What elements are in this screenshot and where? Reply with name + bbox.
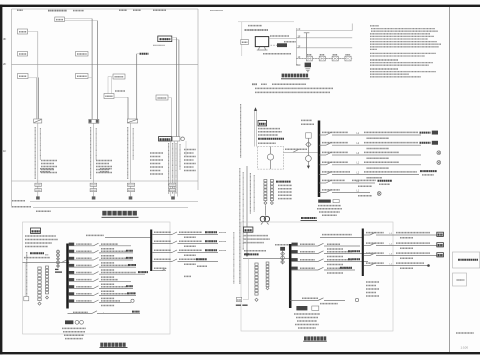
AW2 circuit W3 conductor note — [327, 264, 343, 266]
signal wire — [269, 38, 297, 40]
general notes text block — [370, 25, 379, 27]
riser W4 line a — [176, 38, 178, 137]
fire control room label — [263, 53, 291, 55]
title block divider line — [449, 7, 451, 352]
AW1 circuit W4 breaker box — [69, 264, 75, 267]
surge fuse diamond — [306, 142, 311, 147]
AW1 circuit W8 breaker — [94, 293, 99, 296]
AL1 circuit WL2 wire — [152, 243, 172, 245]
AW2 circuit W1 breaker label — [300, 243, 315, 245]
AW1 circuit W7 wire — [69, 287, 94, 289]
circuit WL2 load tag — [420, 142, 431, 144]
cable spec text W1 — [41, 160, 57, 162]
earth bar chain AW2 — [266, 262, 269, 264]
distribution box AL2-1 — [76, 74, 89, 79]
AL1 circuit WL2 breaker — [172, 241, 177, 244]
small legend mark — [457, 279, 465, 281]
surge protective device SPD — [318, 200, 331, 203]
riser W4 cable tags rotated — [168, 143, 170, 194]
AW1 spare circuit load tag — [132, 311, 140, 313]
AW1 circuit W6 breaker label — [76, 279, 91, 281]
bonding riser line — [295, 28, 297, 65]
floor line 2F — [296, 47, 352, 49]
AW1 circuit W7 breaker label — [76, 286, 91, 288]
UPS box — [241, 40, 249, 45]
AL1 circuit WL1 breaker — [172, 232, 177, 235]
wire — [114, 96, 128, 98]
AW1 SPD — [65, 320, 73, 324]
branch circuit WL2 breaker label — [322, 142, 348, 144]
switch box on riser W2 — [89, 119, 99, 123]
AW1 circuit W3 cable tag — [101, 257, 126, 259]
incoming wire — [23, 262, 70, 264]
AL2 circuit WL1 load box — [437, 232, 444, 236]
distribution box AP3 — [18, 29, 28, 34]
riser W3 cable tag rotated b — [132, 128, 134, 160]
elevator feeder box AW — [104, 94, 114, 99]
SPD note text — [318, 205, 341, 207]
panel label AW2 — [244, 227, 253, 232]
AW2 circuit W2 cable tag — [327, 251, 352, 253]
AL2 circuit WL2 load box — [437, 243, 444, 247]
AW1 circuit W9 breaker label — [76, 300, 91, 302]
AW1 circuit W1 conductor note — [101, 248, 115, 250]
stub wire — [185, 141, 187, 157]
branch circuit WL6 breaker label — [322, 179, 345, 181]
AW1 circuit W4 load tag — [128, 264, 136, 266]
equipotential diagram title underline — [281, 78, 310, 80]
circuit WL3 conductor note — [367, 157, 390, 159]
AL2 circuit WL1 conductor note — [400, 237, 413, 239]
wire tag RVS — [270, 35, 289, 37]
circuit WL4 lamp symbol — [437, 161, 441, 165]
circuit WL3 breaker — [326, 152, 332, 155]
panel name dark text — [258, 138, 284, 140]
AW1 circuit W6 breaker — [94, 279, 99, 282]
AW1 title underline — [100, 347, 128, 349]
distribution box AL1F — [18, 74, 29, 79]
AW1 circuit W7 load tag — [126, 285, 133, 287]
feeder to AW2 rotated tags — [239, 168, 241, 284]
AW1 circuit W1 breaker label — [76, 243, 91, 245]
AW2 circuit W1 conductor note — [327, 248, 343, 250]
meter box label on riser W4 — [169, 183, 176, 186]
AL2 circuit WL3 wire — [364, 255, 370, 257]
riser diagram top line — [12, 8, 199, 10]
cable spec text left of W4 — [150, 152, 163, 154]
AW1 circuit W9 breaker box — [69, 299, 75, 302]
panel label AW-1 — [258, 121, 267, 126]
switch box on riser W1 — [34, 119, 42, 123]
AW2 spare conductor note — [320, 303, 338, 305]
AW1 circuit W3 breaker box — [69, 257, 75, 260]
dashed link — [271, 44, 278, 46]
wire — [28, 31, 38, 33]
AW1 circuit W2 cable tag — [101, 250, 126, 252]
riser W1 upper — [37, 32, 39, 78]
AL1 circuit WL3 conductor note — [184, 254, 196, 256]
AW1 circuit W5 breaker — [94, 272, 99, 275]
metering kwh AW2 — [281, 256, 285, 260]
AW2 circuit W3 breaker label — [300, 259, 315, 261]
kWh meter c — [57, 261, 60, 264]
metering box AW2 — [280, 247, 285, 251]
earth terminal box AW2 — [237, 297, 242, 301]
AL1 circuit WL1 note — [219, 232, 226, 234]
panel AW1 spec text — [25, 235, 56, 237]
riser W3 end terminal — [129, 196, 133, 199]
floor line 3F — [296, 37, 352, 39]
AW1 circuit W8 breaker label — [76, 293, 91, 295]
riser W1 end terminal — [36, 196, 40, 199]
main wire to busbar — [284, 151, 318, 153]
AW1 SPD notes — [62, 327, 86, 329]
circuit WL2 cable tag — [364, 142, 418, 144]
riser W2 cable tag rotated — [90, 127, 92, 179]
earth arrow — [307, 161, 309, 165]
AW2 spare lamp — [355, 298, 358, 301]
AL1 circuit WL1 breaker label — [154, 231, 171, 233]
circuit WL6 wire — [319, 182, 326, 184]
panel AW-C title — [301, 217, 317, 219]
AL1 circuit WL3 note — [219, 250, 226, 252]
metering diamond AW2 b — [281, 260, 285, 264]
AW1 circuit W2 conductor note — [101, 255, 115, 257]
riser diagram right line — [197, 9, 199, 190]
AW1 circuit W3 wire — [69, 259, 94, 261]
AW1 circuit W2 load tag — [126, 250, 133, 252]
AL2 circuit WL4 breaker label — [366, 262, 384, 264]
AL1 circuit WL4 breaker — [172, 259, 177, 262]
cable tag above main wire — [285, 148, 307, 150]
busbar AW2 — [289, 244, 292, 308]
legend heading — [276, 181, 291, 183]
riser header text — [17, 9, 23, 11]
wire pair down — [108, 76, 113, 78]
AL2 circuit WL1 breaker label — [366, 232, 384, 234]
AW1 circuit W2 breaker box — [69, 250, 75, 253]
AW2 spare circuit — [302, 297, 318, 299]
AW2 circuit W1 breaker box — [292, 243, 298, 246]
riser diagram left line — [11, 9, 13, 208]
circuit WL1 cable tag — [364, 131, 418, 133]
wire pair to riser W2 — [64, 18, 92, 20]
AW1 circuit W1 wire — [69, 245, 94, 247]
riser W1 cable tag rotated — [34, 127, 36, 179]
wire — [88, 77, 92, 79]
meter circle — [181, 137, 185, 141]
incoming cable spec AW2 — [244, 250, 266, 252]
circuit WL6 breaker — [326, 180, 332, 183]
AW1 circuit W6 breaker box — [69, 278, 75, 281]
AW1 circuit W1 cable tag — [101, 243, 118, 245]
svg-text:1F: 1F — [3, 149, 7, 153]
circuit WL1 breaker — [326, 132, 332, 135]
AL2 circuit WL4 end dot — [427, 264, 430, 267]
circuit WL1 conductor note — [367, 137, 390, 139]
floor line 1F — [12, 180, 199, 182]
main earthing terminal MEB — [305, 63, 311, 68]
AL1 circuit WL4 cable tag — [179, 258, 202, 260]
AW1 circuit W7 breaker box — [69, 285, 75, 288]
AW2 circuit W3 cable tag — [327, 259, 352, 261]
riser W3 line a — [127, 97, 129, 119]
AW1 circuit W2 wire — [69, 252, 94, 254]
sub busbar AL2 — [362, 229, 364, 277]
control room box left edge — [241, 22, 243, 56]
AL2 circuit WL2 wire — [364, 245, 370, 247]
AW2 circuit W1 cable tag — [327, 243, 340, 245]
legend note line 1 — [252, 83, 257, 85]
panel spec text — [258, 128, 280, 130]
circuit WL1 load box — [432, 131, 438, 135]
riser W3 lower — [130, 123, 132, 197]
DDC label — [284, 41, 296, 43]
stamp box — [453, 252, 480, 268]
AL1 circuit WL2 cable tag — [179, 240, 202, 242]
circuit WL5 cable tag — [364, 171, 417, 173]
AL1 circuit WL3 breaker label — [154, 249, 171, 251]
feeder wire to sub-bus — [105, 237, 151, 239]
AW2 circuit W2 breaker label — [300, 251, 315, 253]
legend lines — [278, 184, 292, 186]
switch box pair at 1F — [159, 137, 172, 141]
branch circuit WL3 breaker label — [322, 151, 348, 153]
riser W1 cable tag rotated b — [39, 128, 41, 160]
metering diamond AW2 a — [281, 252, 285, 256]
AW2 circuit W3 breaker box — [292, 258, 298, 261]
wire into meter — [270, 147, 272, 154]
AW1 circuit W2 breaker label — [76, 250, 91, 252]
legend note line 2 — [255, 87, 333, 89]
branch circuit WL7 breaker label — [322, 189, 340, 191]
AL2 circuit WL4 conductor note — [400, 267, 413, 269]
circuit WL5 conductor note — [367, 177, 383, 179]
pump motor symbol — [260, 216, 265, 221]
AW2 SPD — [296, 306, 307, 310]
panel AW-C title underline — [301, 220, 318, 222]
metering label AW2 — [275, 244, 289, 246]
CT label — [301, 119, 312, 121]
circuit WL2 conductor note — [367, 148, 390, 150]
AL2 circuit WL3 breaker label — [366, 252, 384, 254]
label LV cabinet — [12, 200, 25, 202]
main breaker — [293, 150, 299, 153]
branch circuit WL4 breaker label — [322, 161, 348, 163]
AL2 circuit WL3 breaker — [370, 253, 376, 256]
AL2 circuit WL2 breaker — [370, 243, 376, 246]
AW2 circuit W3 breaker — [318, 259, 324, 262]
feeder arrowhead — [245, 253, 248, 257]
AL1 circuit WL1 load tag — [205, 231, 217, 233]
feeder cable tag rotated — [240, 104, 242, 158]
switch box on riser W3 — [127, 119, 137, 123]
equipotential diagram title — [282, 74, 285, 78]
AW1 circuit W4 conductor note — [101, 269, 115, 271]
incoming cable rotated tag — [26, 252, 28, 296]
AW1 circuit W8 cable tag — [101, 293, 130, 295]
equipotential terminal boxes — [306, 56, 312, 61]
AW2 circuit W2 conductor note — [327, 256, 343, 258]
dashed bonding conductor — [296, 58, 347, 60]
circuit WL2 breaker — [326, 142, 332, 145]
AL1 circuit WL3 breaker — [172, 250, 177, 253]
feeder wire to sub-bus AW2 — [320, 237, 363, 239]
incoming line label — [30, 252, 44, 254]
AW1 circuit W6 wire — [69, 280, 94, 282]
svg-text:3F: 3F — [3, 37, 7, 41]
feeder to sub-bus text — [86, 234, 104, 236]
circuit WL6 load tag — [378, 180, 393, 182]
circuit WL4 wire — [319, 164, 326, 166]
AL1 circuit WL3 cable tag — [179, 249, 202, 251]
label elevation — [36, 210, 51, 212]
circuit WL1 load tag — [420, 132, 431, 134]
AL2 circuit WL1 cable tag — [396, 232, 430, 234]
AW1 circuit W9 conductor note — [101, 305, 115, 307]
sub busbar AL1 — [150, 230, 152, 272]
AW2 title — [304, 336, 307, 340]
riser W3 cable tag rotated — [127, 127, 129, 179]
circuit WL5 breaker — [326, 172, 332, 175]
branch circuit WL1 breaker label — [322, 131, 348, 133]
wire below meter — [270, 160, 272, 169]
AW2 circuit W1 breaker — [318, 243, 324, 246]
ground floor line — [30, 201, 198, 203]
label basement level — [12, 206, 31, 208]
AW2 circuit W3 wire — [292, 261, 319, 263]
AL1 circuit WL3 wire — [152, 252, 172, 254]
AW2 circuit W2 wire — [292, 253, 319, 255]
wire pair to riser W4 — [172, 37, 177, 39]
basement floor line — [33, 207, 188, 209]
circuit WL1 wire — [319, 134, 326, 136]
riser W2 end terminal — [92, 196, 96, 199]
cable tray tag — [140, 53, 149, 55]
AL1 circuit WL1 cable tag — [179, 231, 202, 233]
AL1 circuit WL2 load tag — [205, 240, 217, 242]
AW2 circuit W4 load tag — [340, 267, 352, 269]
earth marks — [55, 268, 59, 270]
earthing drop — [24, 263, 26, 300]
AW1 circuit W8 conductor note — [101, 297, 115, 299]
AL1 note below — [184, 275, 191, 277]
meter box label on riser W1 — [35, 183, 42, 186]
circuit WL3 wire — [319, 154, 326, 156]
power box AP2F-right — [113, 74, 125, 79]
AW2 circuit W2 breaker — [318, 251, 324, 254]
riser diagram title — [102, 211, 106, 216]
AW2 circuit W4 conductor note — [327, 272, 343, 274]
AW1 circuit W7 breaker — [94, 286, 99, 289]
AW1 circuit W5 conductor note — [101, 276, 115, 278]
neutral bar chain — [38, 267, 41, 270]
AW1 circuit W1 breaker box — [69, 243, 75, 246]
label text — [115, 90, 125, 92]
terminal strip chain b — [270, 180, 273, 182]
earthing conductor — [264, 205, 266, 215]
circuit WL3 lamp symbol — [437, 151, 441, 155]
AW1 circuit W3 load tag — [126, 257, 133, 259]
AW1 circuit W4 breaker — [94, 265, 99, 268]
riser W2 line b — [96, 21, 98, 120]
AL2 circuit WL3 load box — [437, 253, 444, 257]
AW2 circuit W4 breaker box — [292, 267, 298, 270]
AL1 circuit WL4 breaker label — [154, 258, 171, 260]
distribution box AP1 — [156, 95, 168, 100]
AW1 spare circuit row — [73, 311, 88, 313]
svg-text:B1F: B1F — [297, 65, 302, 67]
circuit WL5 wire — [319, 174, 326, 176]
AW1 circuit W9 cable tag — [101, 300, 120, 302]
monitor CRT — [255, 37, 268, 47]
AL2 circuit WL4 wire — [364, 265, 370, 267]
kWh meter — [267, 154, 273, 160]
panel label AW1 — [31, 228, 41, 233]
AL1 circuit WL4 conductor note — [184, 263, 196, 265]
AL1 circuit WL2 note — [219, 241, 226, 243]
busbar AW1 — [66, 244, 69, 309]
AW1 circuit W7 conductor note — [101, 290, 115, 292]
small legend box — [453, 273, 467, 286]
AW1 circuit W4 breaker label — [76, 264, 91, 266]
AW1 circuit W8 load tag — [127, 292, 136, 294]
AW2 circuit W4 breaker — [318, 267, 324, 270]
main switch — [62, 260, 68, 263]
AW1 circuit W5 breaker label — [76, 272, 91, 274]
incoming cable spec — [24, 257, 50, 259]
floor line 1F — [296, 58, 352, 60]
fuse diamond a — [57, 257, 60, 260]
CT drop wire — [307, 138, 309, 152]
svg-text:1:100: 1:100 — [461, 345, 469, 349]
AL2 circuit WL1 breaker — [370, 232, 376, 235]
AW2 circuit W4 wire — [292, 269, 319, 271]
left border bar — [0, 5, 2, 355]
AW2 title underline — [303, 340, 327, 342]
metering wire AW2 — [282, 251, 284, 265]
terminal strip chain a — [264, 180, 267, 182]
riser diagram title underline — [102, 216, 139, 218]
AL2 circuit WL4 breaker — [370, 263, 376, 266]
AW1 circuit W2 breaker — [94, 250, 99, 253]
AL1 circuit WL1 wire — [152, 234, 172, 236]
AW2 circuit W2 load tag — [348, 250, 360, 252]
AW1 circuit W3 conductor note — [101, 262, 115, 264]
circuit WL4 conductor note — [367, 167, 390, 169]
pump feeder rotated tags — [249, 173, 251, 214]
AW1 circuit W9 lamp — [131, 299, 134, 302]
circuit WL5 load tag — [420, 170, 437, 172]
AW2 circuit W3 load tag — [348, 258, 360, 260]
AW1 circuit W5 cable tag — [101, 272, 136, 274]
AW1 circuit W6 conductor note — [101, 283, 115, 285]
riser W1 lower — [37, 123, 39, 197]
control room box top edge — [238, 21, 294, 23]
AL1 circuit WL4 wire — [152, 261, 172, 263]
AW1 circuit W9 wire — [69, 302, 94, 304]
earth chain end diamond — [46, 296, 49, 299]
metering chain wire — [57, 250, 59, 268]
neutral chain AW2 end diamond — [255, 298, 258, 301]
kWh meter a — [57, 250, 60, 253]
text above 1F line — [40, 168, 54, 170]
riser W2 lower — [93, 123, 95, 196]
panel AW2 enclosure — [241, 222, 393, 331]
AW2 circuit W2 breaker box — [292, 250, 298, 253]
top border bar — [0, 5, 480, 7]
AL1 circuit WL4 load tag — [196, 258, 207, 260]
